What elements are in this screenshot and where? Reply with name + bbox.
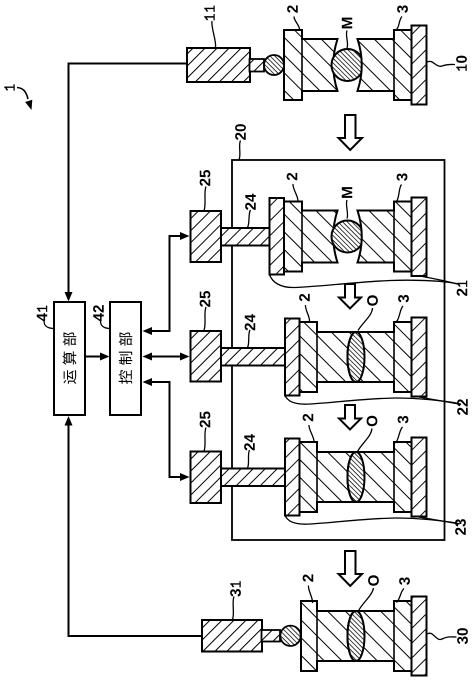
leader 21 upper branch (from right plate) [423, 277, 460, 285]
leader 25 middle [204, 307, 206, 330]
right plate unit 23 [412, 438, 427, 517]
wire: 42 to actuator 25 (upper), bidirectional [148, 236, 182, 331]
label 30 [457, 628, 468, 644]
press mold 3 (right half, closed) [348, 601, 412, 671]
glass material ball M [332, 221, 364, 253]
leader 20 [239, 141, 241, 160]
label 2 (unit 23) [303, 414, 314, 421]
actuator 25 (lower) [191, 452, 222, 504]
press mold 2 (left half, closed) [300, 322, 357, 392]
leader M u21 [346, 200, 347, 219]
label 3 (unit 23) [398, 416, 409, 424]
left plate unit 21 [270, 198, 285, 275]
rod 24 (lower) [221, 469, 286, 487]
label 25 (middle) [200, 291, 211, 307]
label 3 (unit 22) [398, 295, 409, 303]
label 21 [457, 281, 468, 296]
label 25 (lower) [200, 411, 211, 427]
right plate unit 21 [412, 198, 427, 277]
press mold 2 (left half, open) [284, 30, 338, 100]
right plate unit 30 [412, 597, 427, 676]
control unit box 42 [110, 302, 141, 415]
label 22 [457, 399, 468, 415]
left plate unit 23 [285, 439, 300, 516]
label M (unit 10) [342, 18, 352, 29]
label 42 [93, 305, 104, 321]
leader 21 (long wavy) [270, 275, 460, 288]
label 3 (unit 30) [399, 577, 410, 585]
right plate unit 22 [412, 318, 427, 397]
label 23 [455, 519, 466, 535]
actuator 31 [202, 620, 262, 652]
chamber box 20 [232, 160, 445, 540]
leader O u30 [358, 588, 374, 612]
hollow transfer arrow (box20 to unit 30) [339, 551, 363, 586]
leader 2 u21 [293, 184, 298, 202]
leader 24 upper [248, 210, 251, 228]
label 10 [456, 56, 467, 71]
leader 30 (wavy) [428, 633, 457, 639]
wire: 41 to 42 [86, 356, 103, 358]
hook leader 41 [44, 321, 53, 329]
shaft of actuator 11 [250, 59, 265, 72]
leader 10 (wavy) [428, 61, 456, 66]
actuator 11 [187, 48, 250, 82]
actuator 25 (middle) [191, 331, 222, 382]
wire: 42 to actuator 25 (middle), bidirectional [148, 356, 182, 358]
label 24 (lower) [244, 434, 255, 450]
leader 23 upper branch (from right plate) [419, 517, 460, 524]
label 2 (unit 10) [287, 5, 298, 12]
left plate unit 22 [285, 319, 300, 396]
label 41 [37, 306, 47, 322]
curved arrow for label 1 [17, 88, 28, 100]
label 25 (upper) [200, 170, 211, 186]
leader 11 [212, 21, 216, 48]
formed optical element O (lens) [348, 332, 365, 382]
hook leader 42 [101, 321, 110, 329]
label 24 (middle) [245, 314, 256, 330]
actuator 25 (upper) [191, 211, 222, 262]
hollow transfer arrow (22 to 23) [339, 405, 361, 430]
backing plate of unit 10 [412, 26, 427, 105]
leader O u22 [358, 308, 373, 331]
shaft of actuator 31 [262, 630, 281, 642]
label O (unit 23) [367, 416, 378, 427]
leader 25 upper [204, 187, 206, 211]
leader 2 u22 [305, 305, 309, 322]
rod 24 (upper) [221, 228, 270, 246]
leader 2 [294, 17, 300, 30]
leader 31 [233, 597, 235, 620]
ball joint of unit 30 [280, 626, 300, 646]
hollow transfer arrow (top) [339, 115, 363, 150]
glass material ball M [332, 49, 364, 81]
wire: unit 30 actuator to computing unit 41 [69, 423, 204, 636]
leader 3 [397, 17, 403, 30]
label O (unit 22) [367, 295, 378, 306]
press mold 3 (right half, closed) [348, 442, 412, 512]
text 运算部 [63, 370, 76, 384]
label 31 [230, 581, 241, 597]
ball joint of unit 10 [264, 55, 284, 75]
leader 24 middle [248, 330, 251, 348]
label 24 (upper) [245, 194, 256, 210]
text 控制部 [119, 370, 133, 384]
label 2 (unit 22) [299, 294, 310, 301]
press mold 3 (right half, open) [358, 30, 412, 100]
press mold 3 (right half, open) [358, 202, 412, 272]
label 1 (overall apparatus) [4, 84, 14, 90]
formed optical element O (lens) [348, 452, 365, 502]
hollow transfer arrow (21 to 22) [339, 284, 361, 309]
label 11 [204, 6, 214, 21]
leader 3 u30 [397, 589, 405, 603]
leader O u23 [358, 429, 373, 452]
leader 2 u30 [308, 586, 312, 604]
leader 3 u21 [397, 185, 402, 202]
label 2 (unit 30) [303, 574, 314, 581]
leader 22 (long wavy) [285, 396, 461, 405]
press mold 3 (right half, closed) [348, 322, 412, 392]
label 3 (unit 10) [397, 5, 408, 13]
leader 2 u23 [309, 425, 314, 442]
press mold 2 (left half, closed) [301, 601, 356, 671]
leader 3 u23 [396, 427, 403, 443]
press mold 2 (left half, open) [284, 202, 338, 272]
label O (unit 30) [368, 575, 379, 586]
formed optical element O (lens) [348, 611, 365, 661]
leader 25 lower [204, 428, 206, 452]
label 20 [235, 124, 246, 140]
leader 23 (long wavy) [285, 516, 460, 525]
leader M [346, 31, 347, 49]
wire: unit 10 actuator to computing unit 41 [69, 64, 189, 296]
press mold 2 (left half, closed) [300, 442, 357, 512]
label 3 (unit 21) [397, 173, 408, 181]
leader 22 upper branch (from right plate) [419, 397, 461, 404]
leader 3 u22 [397, 306, 404, 322]
wire: 42 to actuator 25 (lower), bidirectional [148, 382, 182, 477]
label M (unit 21) [342, 187, 352, 198]
computing unit box 41 [54, 302, 85, 415]
leader 24 lower [248, 450, 250, 468]
label 2 (unit 21) [287, 173, 298, 180]
rod 24 (middle) [221, 348, 286, 366]
